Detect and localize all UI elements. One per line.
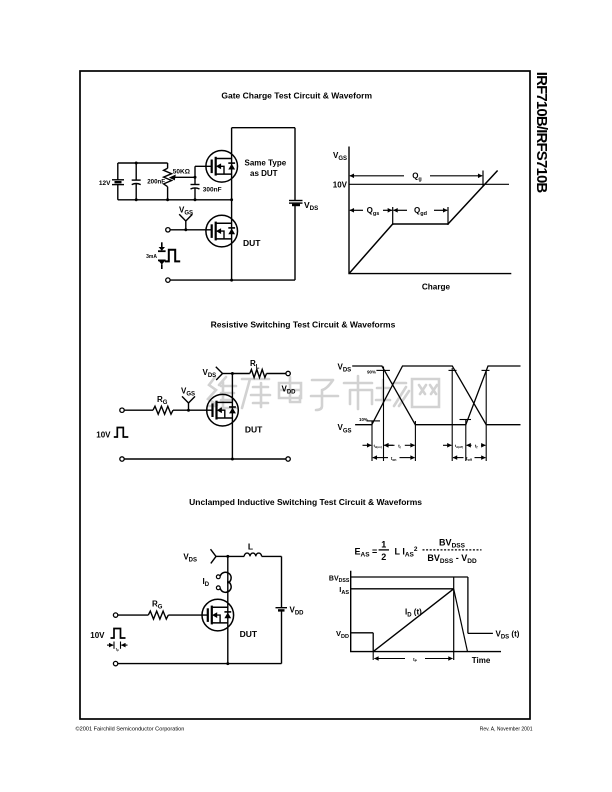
svg-text:Qgs: Qgs	[367, 206, 380, 217]
svg-text:DUT: DUT	[240, 629, 258, 639]
svg-text:10V: 10V	[333, 181, 348, 190]
svg-text:10V: 10V	[90, 631, 105, 640]
svg-text:3mA: 3mA	[146, 254, 157, 260]
svg-text:tP: tP	[116, 648, 119, 653]
svg-text:VDS: VDS	[338, 362, 352, 373]
svg-text:Charge: Charge	[422, 282, 451, 291]
svg-text:toff: toff	[466, 456, 473, 462]
svg-text:BVDSS: BVDSS	[439, 538, 466, 550]
svg-text:EAS =: EAS =	[355, 547, 378, 559]
svg-text:©2001 Fairchild Semiconductor: ©2001 Fairchild Semiconductor Corporatio…	[76, 725, 185, 732]
svg-text:tr: tr	[398, 443, 401, 449]
svg-text:90%: 90%	[367, 369, 376, 374]
svg-text:Qg: Qg	[412, 172, 422, 183]
svg-text:2: 2	[381, 552, 386, 562]
svg-text:td(off): td(off)	[455, 444, 463, 449]
svg-text:VDD: VDD	[290, 606, 305, 617]
svg-text:VDD: VDD	[336, 629, 349, 640]
svg-text:DUT: DUT	[245, 425, 263, 435]
svg-text:tf: tf	[475, 443, 478, 449]
svg-text:VGS: VGS	[181, 387, 195, 398]
svg-text:tP: tP	[413, 657, 418, 663]
svg-text:200nF: 200nF	[147, 178, 165, 185]
svg-text:td(on): td(on)	[374, 444, 382, 449]
svg-text:1: 1	[381, 540, 386, 550]
svg-text:VDS: VDS	[304, 200, 318, 212]
svg-text:VGS: VGS	[333, 151, 347, 162]
svg-text:10V: 10V	[96, 431, 111, 440]
svg-text:ID: ID	[203, 577, 210, 588]
svg-text:IAS: IAS	[339, 585, 349, 596]
svg-text:50KΩ: 50KΩ	[173, 169, 190, 176]
svg-text:RG: RG	[157, 395, 168, 406]
svg-text:VDS (t): VDS (t)	[496, 630, 520, 641]
svg-text:DUT: DUT	[243, 238, 261, 248]
svg-text:Unclamped Inductive Switching: Unclamped Inductive Switching Test Circu…	[189, 497, 422, 507]
svg-text:L IAS2: L IAS2	[395, 546, 418, 559]
svg-text:Same Type: Same Type	[245, 159, 287, 168]
svg-text:ID (t): ID (t)	[405, 608, 422, 619]
svg-text:as DUT: as DUT	[250, 169, 278, 178]
svg-text:10%: 10%	[359, 417, 368, 422]
svg-text:12V: 12V	[99, 180, 111, 187]
svg-text:Resistive Switching Test Circu: Resistive Switching Test Circuit & Wavef…	[211, 320, 396, 330]
svg-text:Rev. A, November 2001: Rev. A, November 2001	[480, 726, 533, 732]
svg-text:ton: ton	[391, 456, 397, 462]
svg-text:VGS: VGS	[179, 205, 193, 216]
svg-text:IRF710B/IRFS710B: IRF710B/IRFS710B	[533, 72, 550, 194]
svg-text:Qgd: Qgd	[414, 206, 427, 217]
svg-text:VDS: VDS	[183, 553, 197, 564]
svg-text:VGS: VGS	[338, 423, 352, 434]
svg-text:Gate Charge Test Circuit & Wav: Gate Charge Test Circuit & Waveform	[221, 91, 372, 101]
svg-text:300nF: 300nF	[203, 187, 222, 194]
svg-text:VDS: VDS	[203, 368, 217, 379]
svg-text:Time: Time	[472, 656, 491, 665]
svg-text:BVDSS: BVDSS	[329, 575, 350, 584]
svg-text:BVDSS - VDD: BVDSS - VDD	[427, 553, 477, 565]
svg-text:L: L	[248, 542, 253, 552]
svg-text:RG: RG	[152, 600, 163, 611]
